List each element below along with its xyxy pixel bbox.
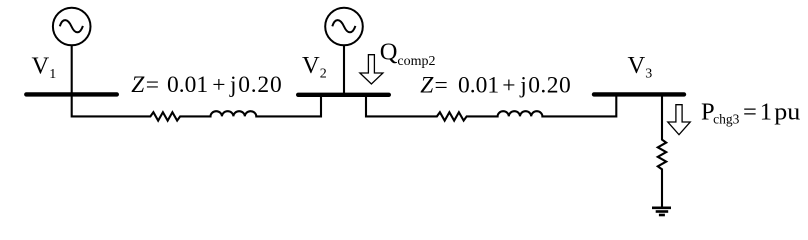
svg-text:Pchg3: Pchg3	[701, 99, 740, 127]
svg-text:Z: Z	[131, 72, 145, 98]
svg-text:=: =	[743, 99, 757, 126]
svg-text:Qcomp2: Qcomp2	[380, 38, 436, 69]
svg-text:+: +	[212, 72, 225, 98]
svg-text:0.20: 0.20	[528, 73, 571, 99]
svg-text:+: +	[502, 73, 515, 99]
svg-text:=: =	[435, 73, 448, 99]
svg-text:V2: V2	[302, 52, 327, 82]
svg-text:1: 1	[760, 99, 772, 126]
svg-text:pu: pu	[774, 99, 800, 126]
svg-text:=: =	[146, 72, 159, 98]
svg-text:V1: V1	[32, 53, 57, 83]
svg-text:0.20: 0.20	[238, 72, 282, 98]
svg-text:0.01: 0.01	[167, 72, 208, 98]
svg-text:V3: V3	[628, 52, 653, 82]
svg-text:j: j	[229, 72, 237, 98]
svg-text:j: j	[519, 73, 527, 99]
svg-text:0.01: 0.01	[458, 73, 499, 99]
svg-text:Z: Z	[420, 73, 434, 99]
